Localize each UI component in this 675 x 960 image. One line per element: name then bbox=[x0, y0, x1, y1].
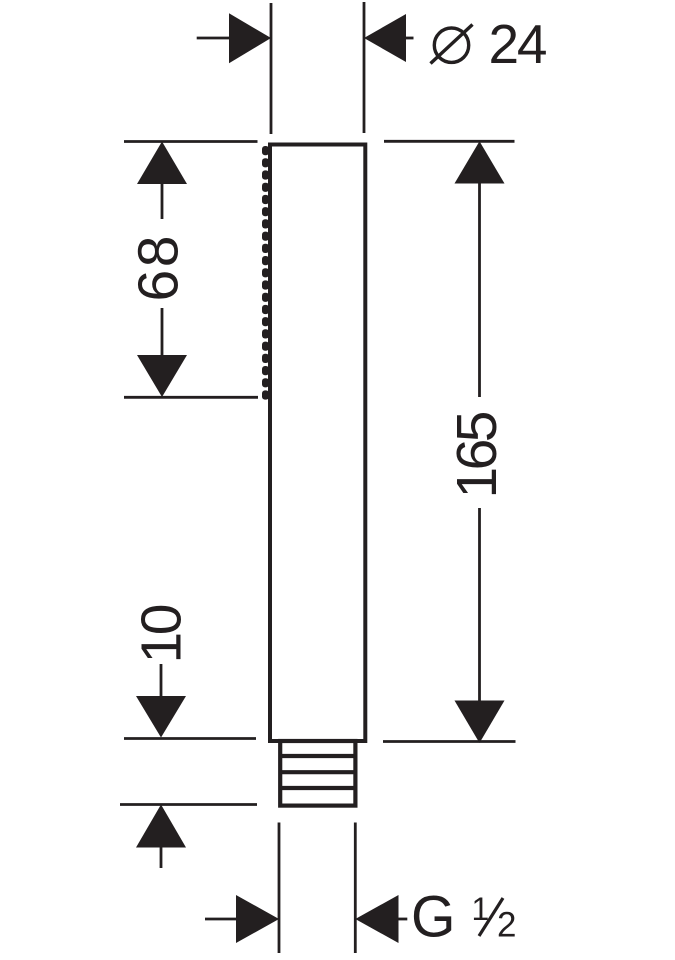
extension line right of diameter dim bbox=[363, 2, 366, 133]
68 dim bottom extension line bbox=[124, 396, 258, 399]
diameter dim right arrow tail bbox=[404, 37, 414, 40]
G half dim left extension line bbox=[278, 823, 281, 954]
10 dim top extension line bbox=[124, 737, 256, 740]
68 dim up arrowhead bbox=[137, 142, 187, 185]
68 dim down arrowhead bbox=[137, 355, 187, 397]
spray nozzle dots on left edge bbox=[262, 146, 269, 400]
165 dim top extension line bbox=[384, 140, 515, 143]
G half dim left arrow tail bbox=[205, 918, 237, 921]
10 dim down arrowhead bbox=[136, 696, 186, 738]
svg-text:G: G bbox=[411, 885, 456, 950]
10 dim line below up arrow bbox=[160, 848, 163, 869]
svg-text:10: 10 bbox=[130, 604, 194, 664]
G half dim right arrowhead bbox=[355, 895, 398, 943]
svg-text:24: 24 bbox=[489, 13, 548, 75]
svg-text:2: 2 bbox=[497, 906, 516, 945]
165 dim down arrowhead bbox=[455, 701, 505, 744]
thread line 2 bbox=[281, 770, 355, 774]
diameter dim right arrowhead bbox=[364, 14, 406, 62]
thread line 3 bbox=[281, 786, 355, 790]
diameter dim left arrow tail bbox=[197, 37, 232, 40]
thread line 1 bbox=[281, 754, 355, 758]
165 dim line lower segment bbox=[478, 508, 481, 701]
68 dim line lower segment bbox=[161, 308, 164, 355]
shower body outline bbox=[270, 145, 365, 742]
G half dim right extension line bbox=[354, 823, 357, 954]
svg-text:68: 68 bbox=[127, 236, 191, 302]
10 dim bottom extension line bbox=[120, 803, 257, 806]
fraction slash bbox=[479, 898, 503, 936]
68 dim line upper segment bbox=[161, 184, 164, 219]
68 dim top extension line bbox=[124, 140, 258, 143]
diameter dim left arrowhead bbox=[229, 13, 271, 63]
G half dim right arrow tail bbox=[397, 918, 407, 921]
diameter symbol slash bbox=[431, 25, 473, 64]
10 dim line above down arrow bbox=[160, 664, 163, 696]
extension line left of diameter dim bbox=[270, 3, 273, 134]
diameter symbol circle bbox=[434, 28, 468, 62]
G half dim left arrowhead bbox=[236, 895, 279, 943]
165 dim up arrowhead bbox=[455, 141, 505, 183]
threaded connector outline bbox=[280, 741, 355, 806]
165 dim bottom extension line bbox=[383, 740, 516, 743]
165 dim line upper segment bbox=[478, 184, 481, 398]
svg-text:165: 165 bbox=[445, 411, 509, 499]
10 dim up arrowhead bbox=[136, 805, 186, 848]
